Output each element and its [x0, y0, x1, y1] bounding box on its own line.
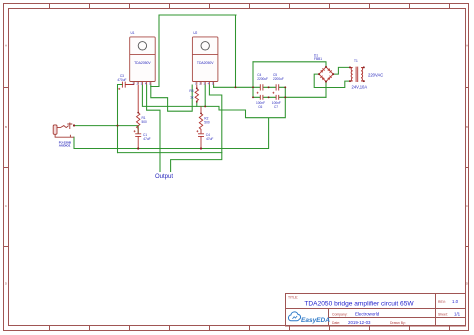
svg-text:A: A: [466, 44, 468, 48]
svg-text:2200uF: 2200uF: [257, 77, 268, 81]
svg-text:Electroworld: Electroworld: [355, 312, 380, 317]
svg-text:Output: Output: [155, 174, 173, 180]
svg-text:47uF: 47uF: [143, 137, 150, 141]
svg-text:AUDIO1: AUDIO1: [59, 144, 71, 148]
svg-text:U2: U2: [193, 31, 197, 35]
svg-text:Sheet:: Sheet:: [438, 313, 448, 317]
svg-text:A: A: [5, 44, 7, 48]
svg-text:R3: R3: [189, 89, 193, 93]
svg-text:TDA2050V: TDA2050V: [134, 61, 151, 65]
svg-text:TITLE:: TITLE:: [288, 296, 298, 300]
svg-text:500: 500: [142, 120, 148, 124]
svg-text:470uF: 470uF: [117, 78, 126, 82]
svg-text:U1: U1: [131, 31, 135, 35]
svg-text:B: B: [5, 125, 7, 129]
svg-text:24V,10A: 24V,10A: [352, 85, 368, 90]
svg-text:Company:: Company:: [332, 313, 348, 317]
svg-text:T1: T1: [354, 59, 358, 63]
svg-text:220VAC: 220VAC: [368, 72, 383, 77]
svg-text:1.0: 1.0: [452, 299, 459, 304]
svg-text:B: B: [466, 125, 468, 129]
svg-text:1k: 1k: [190, 95, 194, 99]
svg-text:1/1: 1/1: [454, 312, 461, 317]
svg-text:500: 500: [204, 121, 210, 125]
svg-text:REV:: REV:: [438, 300, 446, 304]
svg-text:TDA2050 bridge amplifier circu: TDA2050 bridge amplifier circuit 65W: [304, 300, 414, 307]
svg-text:EasyEDA: EasyEDA: [301, 317, 330, 324]
svg-text:C7: C7: [274, 105, 278, 109]
svg-text:Drawn By:: Drawn By:: [390, 321, 406, 325]
svg-text:47uF: 47uF: [206, 137, 213, 141]
svg-text:Date:: Date:: [332, 321, 340, 325]
svg-text:TDA2050V: TDA2050V: [197, 61, 214, 65]
svg-text:2200uF: 2200uF: [273, 77, 284, 81]
svg-text:2019-12-03: 2019-12-03: [348, 320, 371, 325]
svg-text:C6: C6: [258, 105, 262, 109]
svg-text:FBB1: FBB1: [314, 57, 322, 61]
